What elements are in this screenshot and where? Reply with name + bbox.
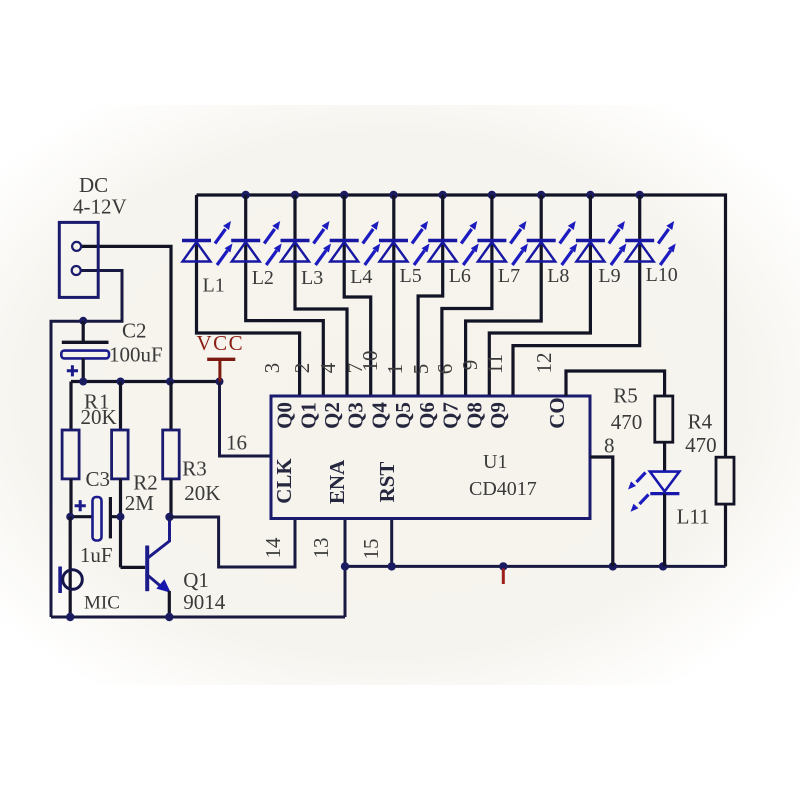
node: R2 top on VCC rail [117,378,125,386]
wire: C2 top lead [82,321,85,341]
svg-text:CO: CO [545,397,569,429]
wire L6 column to pin 1 [418,195,443,396]
terminal pin 2 [72,266,81,275]
svg-text:Q4: Q4 [367,402,391,429]
node: Q1 emitter on bottom rail [165,613,173,621]
wire: R4 to ground [724,504,727,566]
svg-text:L2: L2 [252,267,274,289]
node: MIC on bottom rail [66,613,74,621]
node: pin15 on ground bus [388,562,396,570]
LED L5 [379,221,430,265]
svg-text:Q8: Q8 [462,402,486,429]
node dot collector junction [165,513,173,521]
node: L5 on top rail [389,191,397,199]
svg-text:2: 2 [290,363,314,374]
capacitor C2 100uF top plate [62,341,109,344]
resistor R4 470 [716,457,734,504]
LED L9 [576,221,627,265]
svg-text:14: 14 [261,537,285,559]
LED L4 [330,221,381,265]
wire L8 column to pin 6 [466,195,542,396]
svg-text:12: 12 [532,353,556,374]
wire: C2 bottom lead [82,358,85,381]
svg-text:Q0: Q0 [273,402,297,429]
LED L8 [527,221,578,265]
svg-text:Q1: Q1 [296,402,320,429]
svg-text:100uF: 100uF [109,343,163,367]
base bar [145,546,149,592]
wire: L11 to ground [663,494,666,567]
microphone MIC [69,517,72,617]
svg-text:Q3: Q3 [344,402,368,429]
wire L3 column to pin 4 [295,195,347,396]
node: L9 on top rail [586,191,594,199]
node: C3/R2 junction [117,513,125,521]
node: L2 on top rail [242,191,250,199]
svg-text:20K: 20K [81,405,117,429]
power symbol VCC [207,358,235,361]
svg-text:ENA: ENA [325,459,349,504]
capacitor C3 right plate [109,497,112,538]
capacitor C3 left plate [93,497,102,541]
svg-text:8: 8 [604,434,615,458]
svg-text:L3: L3 [301,267,323,289]
node: VCC stem junction [216,378,224,386]
wire: CO pin12 to R5 [566,371,665,396]
capacitor C3 1uF leads [70,515,120,518]
resistor R2 2M [119,382,122,431]
node: L8 on top rail [537,191,545,199]
resistor R1 20K [69,382,72,431]
svg-text:2M: 2M [125,491,155,515]
node: L3 on top rail [291,191,299,199]
svg-text:Q7: Q7 [439,402,463,429]
svg-text:CD4017: CD4017 [469,478,537,500]
C3 plus sign [75,500,86,511]
svg-text:L9: L9 [598,265,620,287]
svg-text:Q1: Q1 [183,568,209,592]
wire: pin8 to ground [590,457,613,566]
wire L2 column to pin 2 [246,195,324,396]
wire L1 column to pin 3 [197,195,300,396]
LED L11 [650,472,680,492]
svg-text:4: 4 [316,362,340,373]
LED L2 [231,221,282,265]
svg-text:RST: RST [375,462,399,503]
wire: pin13 ENA down and ground bus [344,519,347,618]
wire: top rail and right rail down to R4 [197,195,726,457]
node: R3/DC+ on VCC rail [166,378,174,386]
svg-text:C2: C2 [122,319,147,343]
node: junction dot C2 top [79,317,87,325]
base wire from R2/C3 net [121,566,146,569]
svg-text:L1: L1 [203,275,225,297]
svg-text:C3: C3 [86,467,111,491]
LED L1 [182,221,233,265]
svg-text:16: 16 [226,431,247,455]
svg-text:Q6: Q6 [415,402,439,429]
svg-text:15: 15 [359,539,383,560]
svg-text:CLK: CLK [272,458,296,504]
node: pin8 on ground bus [609,562,617,570]
svg-text:U1: U1 [483,451,507,473]
svg-text:L4: L4 [350,266,372,288]
terminal pin 1 [72,242,81,251]
svg-text:4-12V: 4-12V [73,195,127,219]
wire L9 column to pin 9 [489,195,590,396]
wire: collector net to pin 14 CLK [170,517,296,567]
svg-text:R5: R5 [613,384,638,408]
LED L10 [625,221,676,265]
wire: pin16 VCC to IC [220,382,272,457]
svg-text:L7: L7 [498,265,520,287]
C2 plus sign [67,365,78,376]
node: L4 on top rail [340,191,348,199]
wire: VCC rail [71,380,220,383]
svg-text:13: 13 [309,538,333,559]
svg-text:10: 10 [358,351,382,372]
node: L11 on ground bus [659,562,667,570]
LED L3 [281,221,332,265]
svg-text:1: 1 [383,364,407,375]
svg-text:L8: L8 [547,265,569,287]
paper tint [0,105,800,685]
svg-text:9: 9 [458,360,482,371]
LED L7 [477,221,528,265]
node: L7 on top rail [488,191,496,199]
svg-text:1uF: 1uF [80,543,113,567]
node: R1/C3/MIC junction [66,513,74,521]
svg-text:20K: 20K [184,481,220,505]
collector [148,517,170,558]
svg-text:6: 6 [433,364,457,375]
node: pin13 on ground bus [341,562,349,570]
svg-text:L5: L5 [400,265,422,287]
wire L7 column to pin 5 [442,195,492,396]
resistor R5 470 [655,396,673,442]
wire: R5 to L11 [663,442,666,471]
node: L10 on top rail [636,191,644,199]
wire L5 column to pin 10 [392,195,395,396]
svg-text:R3: R3 [182,457,207,481]
node: C2+ on VCC rail [79,378,87,386]
svg-text:L11: L11 [677,505,710,529]
svg-text:3: 3 [260,363,284,374]
svg-text:L6: L6 [449,265,471,287]
wire L4 column to pin 7 [344,195,371,396]
resistor R3 20K [169,382,172,431]
svg-text:L10: L10 [646,264,678,286]
wire L10 column to pin 11 [513,195,640,396]
IC U1 CD4017 box [271,396,590,519]
svg-text:5: 5 [409,364,433,375]
node: mid ground bus [499,562,507,570]
wire: DC minus terminal down-left to ground left rail [51,271,122,618]
svg-text:Q9: Q9 [486,402,510,429]
connector J1 DC socket box [59,222,98,297]
wire: bottom left ground rail [51,616,345,619]
wire: pin15 RST stub [390,519,393,567]
svg-text:Q2: Q2 [320,402,344,429]
node: L6 on top rail [439,191,447,199]
svg-text:Q5: Q5 [391,402,415,429]
LED L6 [428,221,479,265]
svg-text:9014: 9014 [183,590,226,614]
red tick mark [502,569,505,585]
svg-text:11: 11 [483,354,507,374]
svg-text:MIC: MIC [84,593,120,614]
svg-text:470: 470 [611,410,643,434]
svg-text:DC: DC [79,173,108,197]
svg-text:R4: R4 [688,410,713,434]
emitter with arrow [148,576,164,590]
capacitor C2 bottom plate [61,351,109,359]
wire: DC plus terminal to VCC column [81,246,171,381]
svg-text:470: 470 [685,433,717,457]
